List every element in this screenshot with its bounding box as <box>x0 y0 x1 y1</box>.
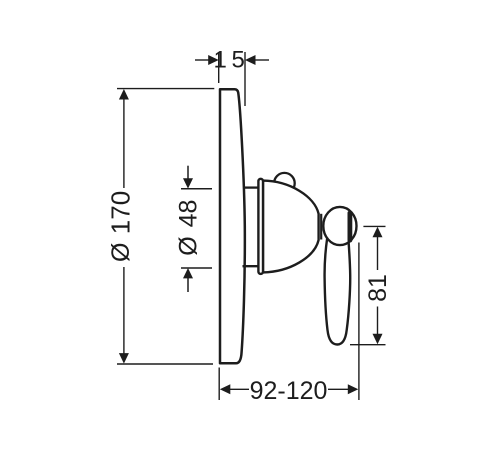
node: dimension 15 left arrowhead <box>208 55 219 65</box>
svg-text:92-120: 92-120 <box>250 377 328 405</box>
wire: dimension 92-120 line right segment <box>328 388 350 390</box>
node: dimension 170 down arrowhead <box>119 353 129 364</box>
wire: dimension 92-120 line left segment <box>228 388 249 390</box>
wire: neck line at ball side <box>320 214 322 240</box>
bell-shaped valve body <box>263 181 319 273</box>
wire: dimension 48 top extension line <box>181 188 212 190</box>
wire: dimension 81 vertical line lower <box>377 307 379 337</box>
wire: dimension 81 vertical line upper <box>377 236 379 270</box>
svg-text:81: 81 <box>364 274 392 302</box>
wire: dimension 170 bottom extension line <box>117 363 213 365</box>
node: dimension 81 down arrowhead <box>373 334 383 345</box>
node: dimension 92-120 left arrowhead <box>220 384 231 394</box>
wire: dimension 15 right arrow tail <box>254 59 270 61</box>
ball knob <box>323 207 356 245</box>
svg-text:5: 5 <box>232 46 245 73</box>
svg-text:48: 48 <box>174 200 202 228</box>
escutcheon plate (side profile) <box>220 89 245 363</box>
svg-text:Ø: Ø <box>107 243 135 262</box>
temperature override button (bump on bell) <box>274 173 295 194</box>
node: dimension 170 up arrowhead <box>119 89 129 100</box>
node: dimension 92-120 right arrowhead <box>348 384 359 394</box>
wire: dimension 92-120 left extension line <box>218 368 220 401</box>
wire: dimension 170 top extension line <box>117 88 214 90</box>
svg-text:170: 170 <box>106 191 136 234</box>
lever handle <box>325 238 351 345</box>
wire: dimension 170 vertical line lower <box>123 267 125 355</box>
wire: dimension 92-120 right extension line <box>358 243 360 401</box>
flange ring at plate <box>258 179 263 274</box>
node: dimension 48 top arrowhead (down) <box>183 178 193 188</box>
wire: dimension 81 bottom extension line <box>350 344 386 346</box>
node: dimension 81 up arrowhead <box>373 227 383 238</box>
wire: dimension 15 left arrow tail <box>195 59 211 61</box>
wire: dimension 170 vertical line upper <box>123 98 125 188</box>
svg-text:1: 1 <box>214 46 227 73</box>
node: dimension 48 bottom arrowhead (up) <box>183 268 193 278</box>
wire: dimension 48 bottom arrow tail <box>187 278 189 292</box>
node: dimension 15 right arrowhead <box>245 55 256 65</box>
svg-text:Ø: Ø <box>174 236 202 255</box>
wire: sleeve top outline <box>243 186 259 188</box>
wire: dimension 81 top extension line <box>363 225 385 227</box>
wire: dimension 48 bottom extension line <box>181 267 212 269</box>
wire: dimension 15 right extension line <box>244 52 246 106</box>
wire: dimension 48 top arrow tail <box>187 166 189 180</box>
node: knob flat face (thick bar) <box>348 211 353 243</box>
wire: dimension 15 left extension line <box>218 52 220 83</box>
wire: sleeve bottom outline <box>243 265 260 267</box>
